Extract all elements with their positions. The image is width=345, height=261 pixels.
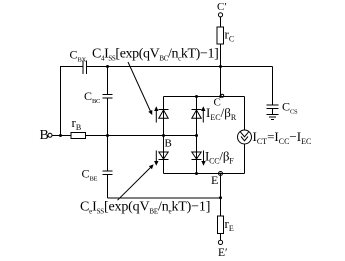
svg-text:B: B <box>165 138 172 150</box>
svg-text:E: E <box>211 173 218 187</box>
svg-text:rE: rE <box>225 216 234 233</box>
svg-text:CBX: CBX <box>70 48 87 64</box>
svg-text:rB: rB <box>72 115 82 132</box>
svg-text:CeISS[exp(qVBE/nekT)−1]: CeISS[exp(qVBE/nekT)−1] <box>80 200 210 216</box>
svg-text:CBC: CBC <box>84 89 100 105</box>
svg-text:rC: rC <box>225 27 235 44</box>
svg-text:IEC/βR: IEC/βR <box>206 105 237 122</box>
svg-text:C′: C′ <box>217 1 227 13</box>
svg-text:ICC/βF: ICC/βF <box>205 149 234 166</box>
svg-text:B: B <box>40 128 49 143</box>
svg-text:E′: E′ <box>218 247 228 259</box>
svg-text:C4ISS[exp(qVBC/nckT)−1]: C4ISS[exp(qVBC/nckT)−1] <box>92 47 218 63</box>
svg-text:CBE: CBE <box>82 167 98 183</box>
svg-text:ICT=ICC−IEC: ICT=ICC−IEC <box>253 129 312 146</box>
svg-text:CCS: CCS <box>282 100 298 116</box>
